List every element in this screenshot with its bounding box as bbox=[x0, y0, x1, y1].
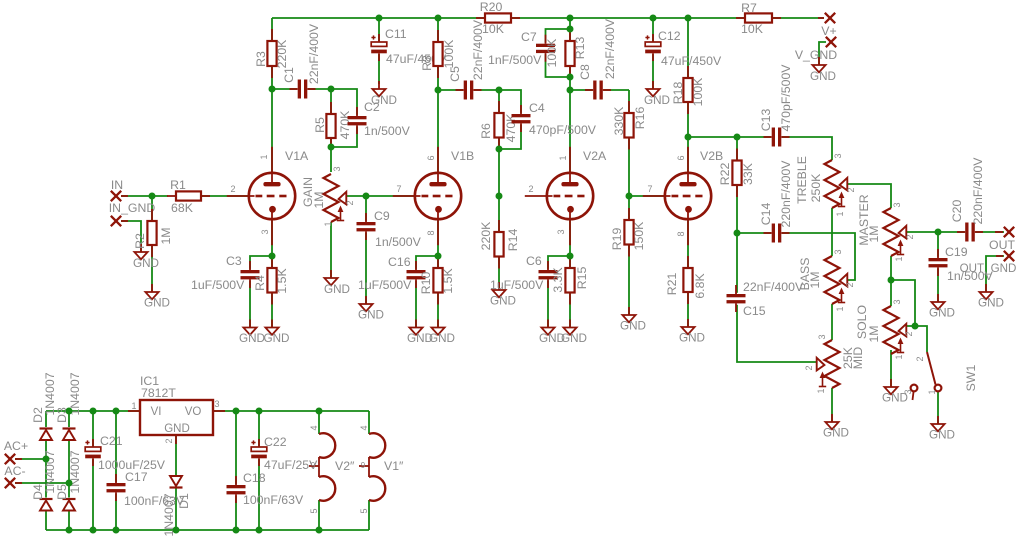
svg-text:GND: GND bbox=[561, 332, 587, 345]
wire GAIN wiper to V1B grid bbox=[346, 195, 414, 197]
svg-text:GND: GND bbox=[929, 307, 955, 320]
wire IN to R1 bbox=[121, 195, 168, 197]
port V_GND bbox=[795, 37, 837, 62]
svg-text:C20: C20 bbox=[950, 200, 964, 223]
svg-text:D1: D1 bbox=[177, 493, 191, 509]
junction R22 top bbox=[734, 134, 741, 141]
resistor R7 bbox=[736, 1, 781, 36]
pin 1 BASS bbox=[835, 306, 845, 311]
pin 5 heater V1 bbox=[359, 508, 369, 513]
potentiometer SOLO bbox=[855, 305, 906, 354]
pin 4 heater V1 bbox=[359, 425, 369, 430]
wire supply bottom rail bbox=[46, 529, 369, 531]
pin 6 V1B bbox=[426, 155, 436, 160]
wire V1B cathode column bbox=[437, 220, 439, 328]
svg-text:VO: VO bbox=[185, 406, 202, 418]
ground C9 bbox=[358, 296, 384, 322]
wire C8 coupling bbox=[570, 89, 629, 91]
svg-text:R5: R5 bbox=[313, 117, 327, 133]
wire C5 coupling bbox=[438, 89, 499, 91]
pin 3 IC1 bbox=[214, 399, 219, 409]
svg-text:1: 1 bbox=[558, 155, 568, 160]
svg-text:OUT: OUT bbox=[989, 238, 1015, 252]
pin 2 IC1 bbox=[164, 438, 174, 443]
svg-text:GND: GND bbox=[620, 320, 646, 333]
junction out node bbox=[935, 229, 942, 236]
capacitor C12 bbox=[645, 29, 722, 68]
port IN_GND bbox=[109, 201, 156, 226]
heater V1 bbox=[359, 433, 404, 500]
ground OUT_GND bbox=[978, 284, 1004, 310]
regulator IC1 bbox=[128, 374, 225, 444]
wire master wiper to out node bbox=[906, 231, 938, 233]
wire C6 branch bbox=[548, 256, 570, 328]
capacitor C4 bbox=[512, 101, 597, 137]
svg-text:C2: C2 bbox=[364, 100, 380, 114]
junction V2B grid bbox=[626, 193, 633, 200]
svg-text:1: 1 bbox=[894, 256, 904, 261]
wire bass bottom to mid top bbox=[831, 304, 833, 340]
svg-text:4: 4 bbox=[309, 425, 319, 430]
pin 1 SW1 bbox=[927, 389, 937, 394]
diode D5 bbox=[55, 450, 82, 511]
junction C7 top bbox=[567, 26, 574, 33]
wire V2B cathode column bbox=[687, 220, 689, 327]
svg-text:2: 2 bbox=[905, 234, 915, 239]
ground C19 bbox=[929, 294, 955, 320]
svg-text:GND: GND bbox=[978, 297, 1004, 310]
wire D3/D5 column bbox=[68, 411, 70, 530]
pin 2 V1A bbox=[230, 184, 235, 194]
svg-text:GND: GND bbox=[810, 70, 836, 83]
wire D1 column bbox=[175, 435, 177, 530]
svg-text:9: 9 bbox=[361, 461, 366, 470]
wire C19 branch bbox=[937, 232, 939, 302]
svg-text:GND: GND bbox=[490, 295, 516, 308]
ground SW1 bbox=[929, 416, 955, 442]
pin 2 GAIN bbox=[345, 200, 355, 205]
svg-text:C22: C22 bbox=[264, 435, 287, 449]
svg-text:3: 3 bbox=[556, 229, 566, 234]
ground R10 bbox=[429, 320, 455, 346]
capacitor C20 bbox=[950, 157, 985, 242]
svg-text:1: 1 bbox=[835, 211, 845, 216]
svg-text:C5: C5 bbox=[448, 66, 462, 82]
pin 7 V1B bbox=[396, 184, 401, 194]
wire V2A plate column bbox=[569, 18, 571, 172]
wire GAIN pot to ground bbox=[330, 222, 332, 278]
wire heater V2 feed bbox=[318, 411, 320, 434]
capacitor C3 bbox=[191, 254, 260, 292]
junction bottom heater bbox=[316, 527, 323, 534]
capacitor C9 bbox=[357, 209, 422, 249]
junction V1B plate bbox=[435, 87, 442, 94]
junction rail R13 bbox=[567, 15, 574, 22]
svg-text:GND: GND bbox=[144, 297, 170, 310]
svg-text:2: 2 bbox=[345, 200, 355, 205]
svg-text:R19: R19 bbox=[610, 228, 624, 251]
ground V_GND bbox=[810, 57, 836, 83]
port V+ bbox=[818, 13, 837, 38]
svg-text:1uF/500V: 1uF/500V bbox=[490, 278, 544, 292]
svg-text:220nF/400V: 220nF/400V bbox=[971, 157, 985, 225]
resistor R20 bbox=[476, 0, 520, 36]
svg-text:1uF/500V: 1uF/500V bbox=[358, 278, 412, 292]
svg-text:GND: GND bbox=[823, 427, 849, 440]
pin 1 TREBLE bbox=[835, 211, 845, 216]
port AC+ bbox=[4, 439, 28, 464]
svg-text:GND: GND bbox=[324, 283, 350, 296]
wire C18 column bbox=[235, 411, 237, 530]
svg-text:470pF/500V: 470pF/500V bbox=[529, 123, 597, 137]
wire C9 branch bbox=[365, 196, 367, 304]
wire C21 column bbox=[92, 411, 94, 530]
wire R16/R19 column bbox=[628, 90, 630, 315]
pin 1 MID bbox=[816, 388, 826, 393]
resistor R22 bbox=[718, 149, 755, 198]
junction rail D3 bbox=[66, 408, 73, 415]
pin 3 SW1 bbox=[903, 389, 913, 394]
junction bottom C17 bbox=[113, 527, 120, 534]
pin 2 SOLO bbox=[904, 331, 914, 336]
pin 7 V2B bbox=[647, 184, 652, 194]
svg-text:3: 3 bbox=[833, 153, 843, 158]
svg-text:C7: C7 bbox=[521, 30, 537, 44]
junction V1B cathode bbox=[435, 253, 442, 260]
capacitor C22 bbox=[251, 435, 318, 472]
pin 3 GAIN bbox=[332, 166, 342, 171]
diode D2 bbox=[31, 372, 57, 440]
svg-text:GND: GND bbox=[164, 423, 190, 435]
svg-text:68K: 68K bbox=[171, 201, 194, 215]
wire heater V2 return bbox=[318, 500, 320, 530]
svg-text:22nF/400V: 22nF/400V bbox=[307, 23, 321, 84]
pin 5 heater V2 bbox=[309, 508, 319, 513]
junction V1A plate bbox=[269, 86, 276, 93]
svg-text:3: 3 bbox=[817, 334, 827, 339]
svg-text:R18: R18 bbox=[671, 82, 685, 105]
ground R19 bbox=[620, 307, 646, 333]
svg-text:1nF/500V: 1nF/500V bbox=[488, 53, 542, 67]
svg-text:2: 2 bbox=[230, 184, 235, 194]
svg-text:7: 7 bbox=[396, 184, 401, 194]
junction V2A grid bbox=[496, 193, 503, 200]
svg-text:6: 6 bbox=[426, 155, 436, 160]
wire C17 column bbox=[115, 411, 117, 530]
capacitor C11 bbox=[371, 27, 447, 66]
resistor R1 bbox=[167, 178, 210, 215]
junction rail C22 bbox=[256, 408, 263, 415]
pin 2 SW1 bbox=[915, 356, 925, 361]
wire V1A plate column bbox=[271, 18, 273, 172]
diode D1 bbox=[162, 475, 191, 537]
resistor R10 bbox=[419, 256, 455, 305]
svg-text:5: 5 bbox=[359, 508, 369, 513]
pin 3 V1A bbox=[260, 229, 270, 234]
svg-text:1M: 1M bbox=[808, 271, 822, 288]
svg-text:C14: C14 bbox=[759, 203, 773, 226]
svg-text:R21: R21 bbox=[665, 273, 679, 296]
svg-text:2: 2 bbox=[846, 187, 856, 192]
pin 2 V2A bbox=[528, 184, 533, 194]
wire R6 column to V2A grid bbox=[498, 90, 500, 196]
junction V2A plate bbox=[567, 87, 574, 94]
svg-text:2: 2 bbox=[904, 331, 914, 336]
wire C12 branch bbox=[652, 18, 654, 89]
ground GAIN bbox=[324, 270, 350, 296]
wire D2/D4 column bbox=[45, 411, 47, 530]
resistor R2 bbox=[133, 209, 173, 257]
junction bottom C21 bbox=[90, 527, 97, 534]
svg-text:1M: 1M bbox=[867, 325, 881, 342]
junction master bottom bbox=[888, 277, 895, 284]
pin 3 SOLO bbox=[892, 299, 902, 304]
capacitor C5 bbox=[448, 19, 485, 99]
wire R22 column bbox=[736, 137, 738, 233]
svg-text:1M: 1M bbox=[159, 227, 173, 244]
wire R2 column bbox=[151, 196, 153, 292]
resistor R21 bbox=[665, 256, 707, 304]
junction bottom C18 bbox=[233, 527, 240, 534]
svg-text:250K: 250K bbox=[809, 173, 823, 203]
svg-text:22nF/400V: 22nF/400V bbox=[743, 280, 804, 294]
svg-text:2: 2 bbox=[845, 282, 855, 287]
svg-text:GND: GND bbox=[358, 309, 384, 322]
capacitor C19 bbox=[929, 245, 994, 283]
port OUT_GND bbox=[960, 251, 1017, 275]
junction V1A cathode bbox=[269, 253, 276, 260]
svg-text:100K: 100K bbox=[442, 39, 456, 69]
capacitor C7 bbox=[488, 30, 555, 67]
triode V2B bbox=[643, 147, 723, 245]
svg-text:7: 7 bbox=[647, 184, 652, 194]
svg-text:V1″: V1″ bbox=[384, 459, 404, 473]
svg-text:V2A: V2A bbox=[583, 149, 607, 163]
pin 2 BASS bbox=[845, 282, 855, 287]
svg-text:220nF/400V: 220nF/400V bbox=[779, 160, 793, 228]
svg-text:3: 3 bbox=[892, 202, 902, 207]
junction C7 bottom bbox=[567, 74, 574, 81]
svg-text:C17: C17 bbox=[125, 470, 148, 484]
svg-text:33K: 33K bbox=[741, 162, 755, 185]
junction GAIN wiper bbox=[363, 193, 370, 200]
svg-text:R4: R4 bbox=[253, 275, 267, 291]
wire master bottom bbox=[890, 256, 892, 306]
pin 3 MASTER bbox=[892, 202, 902, 207]
svg-text:C4: C4 bbox=[529, 101, 545, 115]
pin 1 MASTER bbox=[894, 256, 904, 261]
svg-text:220K: 220K bbox=[275, 39, 289, 69]
svg-text:1M: 1M bbox=[312, 191, 326, 208]
wire treble bottom to bass top bbox=[831, 208, 833, 256]
switch SW1 bbox=[911, 352, 978, 400]
svg-text:2: 2 bbox=[528, 184, 533, 194]
svg-text:330K: 330K bbox=[612, 106, 626, 136]
junction bottom D5 bbox=[66, 527, 73, 534]
svg-text:R15: R15 bbox=[575, 267, 589, 290]
svg-text:C6: C6 bbox=[526, 254, 542, 268]
svg-text:22nF/400V: 22nF/400V bbox=[603, 18, 617, 79]
svg-text:V1A: V1A bbox=[285, 149, 309, 163]
svg-text:GND: GND bbox=[264, 332, 290, 345]
svg-text:6.8K: 6.8K bbox=[693, 273, 707, 299]
resistor R5 bbox=[313, 102, 352, 150]
diode D4 bbox=[31, 450, 57, 511]
svg-text:1: 1 bbox=[323, 221, 333, 226]
heater V2 bbox=[309, 433, 355, 500]
pin 2 MID bbox=[804, 365, 814, 370]
ground R15 bbox=[561, 320, 587, 346]
triode V1B bbox=[393, 147, 474, 245]
junction V2A cathode bbox=[567, 253, 574, 260]
junction rail C12 bbox=[650, 15, 657, 22]
pin 3 V2A bbox=[556, 229, 566, 234]
svg-text:1n/500V: 1n/500V bbox=[375, 235, 422, 249]
svg-text:1.5K: 1.5K bbox=[275, 268, 289, 294]
svg-text:AC-: AC- bbox=[4, 464, 25, 478]
potentiometer MASTER bbox=[857, 194, 906, 256]
svg-text:3: 3 bbox=[833, 249, 843, 254]
svg-text:R2: R2 bbox=[133, 233, 147, 249]
svg-text:C9: C9 bbox=[374, 209, 390, 223]
svg-text:R6: R6 bbox=[479, 123, 493, 139]
svg-text:R14: R14 bbox=[506, 229, 520, 252]
capacitor C13 bbox=[759, 64, 793, 147]
wire C11 branch bbox=[378, 18, 380, 84]
svg-text:C16: C16 bbox=[388, 255, 411, 269]
wire R18 / V2B plate column bbox=[687, 18, 689, 172]
svg-text:GND: GND bbox=[429, 332, 455, 345]
svg-text:C1: C1 bbox=[282, 67, 296, 83]
svg-text:100K: 100K bbox=[545, 38, 559, 68]
ground C12 bbox=[644, 81, 670, 107]
svg-text:10K: 10K bbox=[741, 22, 764, 36]
svg-text:TREBLE: TREBLE bbox=[795, 156, 809, 204]
ground R21 bbox=[679, 319, 705, 345]
junction R6 bottom bbox=[496, 146, 503, 153]
capacitor C15 bbox=[727, 280, 804, 318]
wire C1 coupling bbox=[272, 88, 331, 90]
svg-text:8: 8 bbox=[676, 231, 686, 236]
junction bottom D1 bbox=[173, 527, 180, 534]
junction rail heater bbox=[316, 408, 323, 415]
svg-text:1: 1 bbox=[927, 389, 937, 394]
pin 4 heater V2 bbox=[309, 425, 319, 430]
ground R14 bbox=[490, 282, 516, 308]
resistor R4 bbox=[253, 256, 289, 305]
svg-text:GND: GND bbox=[239, 332, 265, 345]
port AC- bbox=[4, 464, 25, 488]
wire AC- to bridge bbox=[15, 482, 69, 484]
wire mid bottom to ground bbox=[831, 388, 833, 422]
ground C3 bbox=[239, 320, 265, 346]
triode V2A bbox=[525, 147, 607, 245]
pin 2 TREBLE bbox=[846, 187, 856, 192]
capacitor C17 bbox=[107, 470, 185, 508]
svg-text:100nF/63V: 100nF/63V bbox=[243, 493, 304, 507]
svg-text:1n/500V: 1n/500V bbox=[364, 124, 411, 138]
svg-text:R7: R7 bbox=[741, 1, 757, 15]
svg-text:470pF/500V: 470pF/500V bbox=[779, 64, 793, 132]
pin 3 TREBLE bbox=[833, 153, 843, 158]
wire supply rail right bbox=[213, 410, 369, 412]
svg-text:C15: C15 bbox=[743, 304, 766, 318]
pin 3 MID bbox=[817, 334, 827, 339]
svg-text:4: 4 bbox=[359, 425, 369, 430]
wire OUT_GND to ground bbox=[986, 256, 1004, 292]
svg-text:2: 2 bbox=[164, 438, 174, 443]
svg-text:VI: VI bbox=[151, 406, 162, 418]
wire to V2B grid bbox=[629, 195, 664, 197]
junction rail R18 bbox=[685, 15, 692, 22]
pin 9 heater V2 bbox=[311, 461, 316, 470]
svg-text:1M: 1M bbox=[867, 225, 881, 242]
svg-text:R13: R13 bbox=[573, 37, 587, 60]
wire treble wiper to master bbox=[847, 184, 891, 208]
svg-text:AC+: AC+ bbox=[4, 439, 28, 453]
svg-text:9: 9 bbox=[311, 461, 316, 470]
svg-text:8: 8 bbox=[426, 230, 436, 235]
svg-text:5: 5 bbox=[309, 508, 319, 513]
junction rail C11 bbox=[376, 15, 383, 22]
svg-text:GND: GND bbox=[929, 429, 955, 442]
svg-text:1.5K: 1.5K bbox=[441, 268, 455, 294]
wire R14 column bbox=[498, 196, 500, 290]
svg-text:IN: IN bbox=[111, 178, 123, 192]
potentiometer MID bbox=[817, 340, 865, 388]
wire C7 parallel loop bbox=[546, 29, 571, 77]
svg-text:C18: C18 bbox=[243, 471, 266, 485]
junction IN node bbox=[149, 193, 156, 200]
svg-text:3: 3 bbox=[260, 229, 270, 234]
svg-text:3: 3 bbox=[332, 166, 342, 171]
svg-text:3: 3 bbox=[892, 299, 902, 304]
resistor R19 bbox=[610, 208, 646, 257]
svg-text:100K: 100K bbox=[691, 77, 705, 107]
svg-text:GND: GND bbox=[133, 257, 159, 270]
svg-text:OUT_GND: OUT_GND bbox=[960, 262, 1017, 275]
port OUT bbox=[989, 227, 1015, 252]
resistor R8 bbox=[420, 30, 456, 78]
wire C15 to mid wiper bbox=[737, 233, 817, 362]
svg-text:C8: C8 bbox=[578, 64, 592, 80]
svg-text:R1: R1 bbox=[170, 178, 186, 192]
capacitor C14 bbox=[759, 160, 793, 243]
pin 8 V1B bbox=[426, 230, 436, 235]
ground C11 bbox=[371, 81, 397, 107]
capacitor C1 bbox=[282, 23, 321, 98]
wire V2B plate node to treble bbox=[688, 137, 832, 160]
junction bridge AC- bbox=[66, 480, 73, 487]
svg-text:V2″: V2″ bbox=[335, 459, 355, 473]
pin 8 V2B bbox=[676, 231, 686, 236]
junction solo wiper bbox=[912, 323, 919, 330]
svg-text:V_GND: V_GND bbox=[795, 48, 837, 62]
svg-text:R20: R20 bbox=[480, 0, 503, 14]
wire master/solo node loop bbox=[891, 280, 915, 326]
potentiometer TREBLE bbox=[795, 156, 847, 208]
svg-text:1: 1 bbox=[835, 306, 845, 311]
svg-text:MID: MID bbox=[851, 347, 865, 370]
junction C5-R6 bbox=[496, 87, 503, 94]
svg-text:C19: C19 bbox=[945, 245, 968, 259]
wire V_GND to ground bbox=[819, 42, 826, 65]
svg-text:GND: GND bbox=[679, 332, 705, 345]
svg-text:1: 1 bbox=[816, 388, 826, 393]
svg-text:C13: C13 bbox=[759, 109, 773, 132]
wire solo wiper to switch bbox=[915, 326, 927, 352]
pin 9 heater V1 bbox=[361, 461, 366, 470]
